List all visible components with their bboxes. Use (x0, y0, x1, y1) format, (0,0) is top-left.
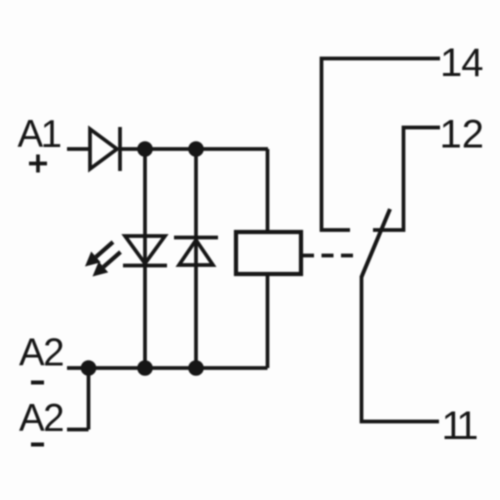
svg-text:A2: A2 (19, 397, 63, 440)
svg-text:11: 11 (442, 404, 478, 448)
svg-text:A2: A2 (19, 332, 63, 375)
svg-text:A1: A1 (18, 113, 61, 156)
svg-text:12: 12 (440, 113, 485, 157)
svg-text:14: 14 (440, 41, 483, 85)
